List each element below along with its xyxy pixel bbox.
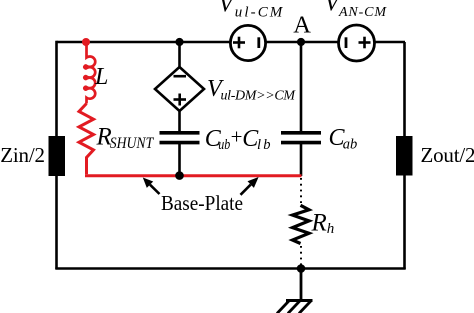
wire ground stub bbox=[300, 269, 303, 302]
label Rh bbox=[311, 210, 335, 238]
wire diamond branch top bbox=[178, 42, 181, 68]
label Vul-CM bbox=[219, 0, 284, 20]
arrow left to base-plate bbox=[143, 178, 160, 195]
impedance Zin/2 bbox=[0, 136, 65, 176]
resistor RSHUNT (red) bbox=[79, 104, 94, 175]
svg-text:V: V bbox=[219, 0, 236, 18]
node red dot bbox=[82, 38, 90, 46]
wire left vertical bbox=[55, 41, 58, 269]
label Cab bbox=[329, 125, 358, 153]
svg-text:SHUNT: SHUNT bbox=[110, 135, 155, 152]
svg-text:ub: ub bbox=[218, 137, 230, 153]
resistor Rh bbox=[293, 205, 310, 243]
svg-text:Zout/2: Zout/2 bbox=[421, 143, 474, 167]
capacitor Cub+Clb bbox=[160, 133, 200, 143]
wire right vertical bbox=[403, 42, 406, 269]
wire bottom bbox=[55, 267, 405, 270]
svg-text:AN-CM: AN-CM bbox=[338, 5, 387, 20]
capacitor Cab bbox=[281, 133, 321, 143]
arrow right to base-plate bbox=[241, 177, 259, 195]
dotted wire above Rh bbox=[300, 178, 302, 205]
svg-text:h: h bbox=[327, 221, 335, 237]
dotted wire below Rh bbox=[300, 246, 302, 266]
svg-text:lb: lb bbox=[257, 137, 271, 153]
controlled source diamond Vul-DM bbox=[155, 67, 204, 111]
junction dot bottom wire bbox=[297, 264, 306, 273]
svg-text:+: + bbox=[231, 125, 243, 149]
wire base-plate (red) bbox=[85, 174, 302, 177]
label RSHUNT bbox=[96, 124, 155, 153]
ground bbox=[277, 301, 313, 313]
voltage source U1 Vul-CM bbox=[230, 25, 265, 60]
voltage source U2 VAN-CM bbox=[339, 25, 375, 61]
label Cub+Clb bbox=[205, 125, 271, 153]
node A dot bbox=[297, 38, 305, 46]
impedance Zout/2 bbox=[396, 136, 474, 176]
junction dot Cub red wire bbox=[175, 171, 184, 180]
svg-text:L: L bbox=[94, 64, 108, 90]
junction dot top diamond branch bbox=[175, 38, 183, 46]
svg-text:A: A bbox=[293, 12, 311, 39]
svg-text:ul-DM>>CM: ul-DM>>CM bbox=[221, 89, 297, 104]
wire Cub bottom stub bbox=[178, 142, 181, 176]
svg-text:Base-Plate: Base-Plate bbox=[161, 191, 243, 215]
wire Cab bottom stub bbox=[300, 142, 303, 176]
svg-text:R: R bbox=[311, 210, 327, 237]
svg-text:ul-CM: ul-CM bbox=[235, 4, 284, 20]
wire node A branch down to capacitor Cab bbox=[300, 42, 303, 133]
svg-text:Zin/2: Zin/2 bbox=[0, 143, 45, 167]
wire top bbox=[57, 41, 406, 44]
wire diamond branch to capacitor Cub bbox=[178, 110, 181, 133]
label VAN-CM bbox=[325, 0, 388, 20]
inductor L (red) bbox=[84, 41, 95, 104]
svg-text:ab: ab bbox=[343, 137, 358, 153]
label Vul-DM>>CM bbox=[207, 76, 296, 104]
